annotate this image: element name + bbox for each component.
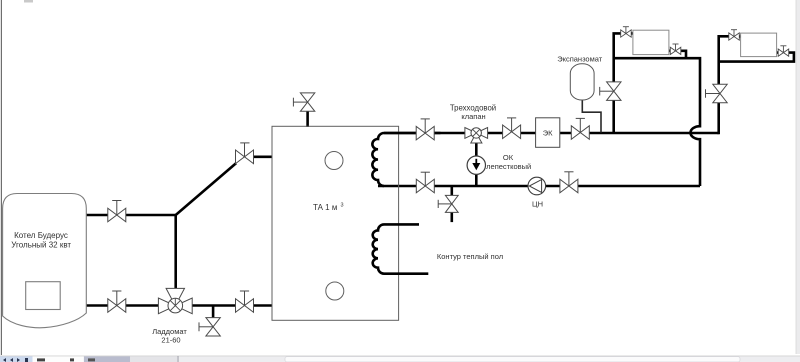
drain valve on return line (438, 195, 458, 212)
expansion tank (Ekspanzomat) (570, 64, 594, 100)
svg-text:Угольный 32 квт: Угольный 32 квт (11, 241, 71, 250)
right scrollbar strip (796, 0, 800, 354)
valve on tank upper inlet (236, 143, 254, 164)
wire: drop to drain valve on return line (450, 186, 453, 196)
air vent valve on tank top (293, 93, 315, 112)
svg-text:21-60: 21-60 (161, 336, 180, 345)
svg-text:клапан: клапан (461, 112, 485, 121)
valve on riser 2 (706, 84, 728, 103)
wire: radiator 2 outlet and bottom return run (720, 53, 794, 62)
svg-text:ОК: ОК (503, 153, 514, 162)
Laddomat 21-60 three-way mixing valve (158, 288, 192, 313)
boiler door rectangle (26, 282, 61, 310)
check valve label (486, 153, 531, 171)
valve on return after pump (560, 172, 578, 193)
drain valve under lower boiler pipe (199, 317, 221, 336)
radiator 2 (741, 33, 777, 57)
svg-text:Трехходовой: Трехходовой (450, 103, 496, 112)
wire: radiator 1 outlet drop (669, 51, 686, 58)
wire: diagonal from junction to tank inlet valve (176, 163, 237, 215)
wire: lower boiler return pipe (87, 304, 160, 307)
svg-text:Ладдомат: Ладдомат (152, 327, 187, 336)
valve on riser 1 (600, 82, 622, 101)
wire: radiator 2 inlet stub (738, 35, 741, 38)
Laddomat label (152, 327, 187, 345)
three-way valve (465, 128, 488, 144)
small top smudge (24, 0, 33, 3)
wire: main return line from tank coil to right corner (378, 185, 700, 188)
svg-text:Контур теплый пол: Контур теплый пол (437, 252, 503, 261)
valve on upper boiler pipe (108, 201, 126, 223)
wire: main supply line from tank coil to right riser (384, 132, 719, 135)
wire: circuit 1 bottom return run with hop over supply (614, 58, 700, 186)
check valve OK (petal type) (467, 156, 485, 174)
wire: expansion tank connector (582, 99, 601, 133)
bottom sheet-tab bar (0, 356, 800, 362)
svg-text:Экспанзомат: Экспанзомат (557, 55, 603, 64)
radiator 2 outlet valve (778, 46, 789, 57)
wire: drop to drain valve under lower pipe (212, 306, 215, 318)
pump label (532, 200, 543, 209)
svg-text:ЦН: ЦН (532, 200, 543, 209)
valve on return before drain (416, 172, 434, 193)
valve on supply after three-way (503, 118, 521, 139)
wire: upper boiler supply pipe (87, 214, 176, 217)
wire: vertical drop from junction to Laddomat (174, 215, 177, 289)
three-way valve label (450, 103, 496, 121)
tank lower circle port (326, 282, 344, 300)
upper heat-exchanger coil of tank (372, 133, 440, 186)
svg-text:ЭК: ЭК (543, 128, 553, 137)
boiler label (11, 231, 71, 250)
radiator 1 (633, 30, 669, 54)
lower heat-exchanger coil of tank (floor heating) (373, 224, 429, 273)
window left border (1, 0, 2, 355)
floor heating circuit label (437, 252, 503, 261)
svg-text:ТА 1 м: ТА 1 м (313, 203, 337, 212)
svg-text:Котел Будерус: Котел Будерус (14, 231, 68, 240)
heat accumulator tank TA (272, 126, 399, 320)
radiator 1 outlet valve (670, 44, 681, 55)
wire: check valve branch from three-way valve to return (475, 141, 478, 186)
wire: riser 1 vertical and top run (614, 33, 634, 133)
wire: riser 2 vertical and top run (719, 36, 730, 134)
radiator 2 inlet valve (729, 30, 740, 41)
valve on lower boiler pipe (108, 291, 126, 313)
wire: stub below return drain valve (450, 212, 453, 222)
tank upper circle port (325, 152, 343, 170)
circulation pump CN (528, 177, 546, 195)
boiler (3, 194, 87, 328)
valve on tank lower pipe (236, 291, 254, 313)
expansion tank label (557, 55, 603, 64)
svg-text:3: 3 (341, 203, 344, 209)
wire: tank upper inlet pipe (236, 156, 273, 159)
wire: Laddomat to tank lower pipe (192, 304, 273, 307)
valve on supply before three-way (416, 119, 434, 140)
radiator 1 inlet valve (621, 27, 632, 38)
svg-text:лепестковый: лепестковый (486, 162, 531, 171)
tank label (313, 203, 344, 213)
wire: air vent connection on tank top (306, 111, 309, 127)
EK box (536, 118, 560, 148)
valve on supply after EK box (571, 118, 589, 139)
